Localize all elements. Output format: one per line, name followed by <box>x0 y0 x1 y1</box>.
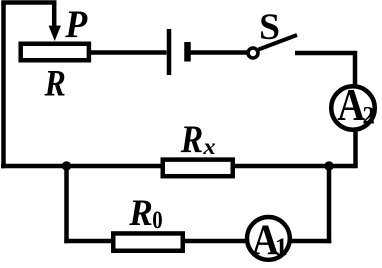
svg-text:P: P <box>64 3 88 46</box>
ammeter A1 <box>247 216 290 264</box>
svg-text:1: 1 <box>275 232 288 261</box>
resistor Rx box <box>163 160 233 177</box>
svg-text:R: R <box>180 118 203 161</box>
svg-text:R: R <box>128 193 153 234</box>
wire: bottom horizontal <box>64 239 331 244</box>
wire: switch to ammeter A2 <box>295 53 355 85</box>
switch S blade <box>259 35 298 50</box>
svg-text:A: A <box>337 80 365 130</box>
wire: top horizontal <box>1 0 56 5</box>
wire: slider stem <box>52 1 57 28</box>
rheostat R box <box>21 44 89 61</box>
wire: right branch down <box>327 166 332 243</box>
battery short plate <box>184 42 191 62</box>
battery long plate <box>167 29 172 75</box>
middle horizontal wire <box>1 164 356 169</box>
wire: left branch down <box>64 166 69 243</box>
switch S pivot circle <box>248 48 258 58</box>
wire: left vertical side <box>1 3 6 169</box>
ammeter A2 <box>331 80 375 130</box>
svg-text:R: R <box>44 64 66 105</box>
svg-text:0: 0 <box>152 205 162 234</box>
junction node left (dot) <box>62 161 71 170</box>
resistor R0 box <box>113 233 183 250</box>
wire: battery to switch <box>191 50 248 55</box>
svg-text:S: S <box>259 7 280 48</box>
rheostat slider arrowhead <box>49 26 61 41</box>
junction node right (dot) <box>324 161 333 170</box>
svg-text:2: 2 <box>362 103 375 130</box>
wire: A2 down to middle wire <box>353 131 358 168</box>
svg-text:x: x <box>202 134 215 159</box>
wire: rheostat to battery <box>91 50 167 55</box>
